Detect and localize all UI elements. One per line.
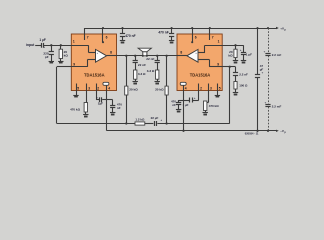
svg-text:3: 3 — [210, 86, 212, 90]
svg-text:020054 - 11: 020054 - 11 — [245, 132, 259, 136]
svg-text:8: 8 — [180, 50, 182, 54]
svg-text:TDA1516A: TDA1516A — [190, 72, 211, 77]
svg-text:5: 5 — [219, 86, 221, 90]
svg-text:+: + — [96, 96, 98, 100]
svg-text:9: 9 — [73, 62, 75, 66]
svg-text:470 kΩ: 470 kΩ — [70, 107, 81, 111]
svg-text:3.3 Ω: 3.3 Ω — [147, 69, 155, 73]
svg-text:+: + — [265, 100, 267, 104]
svg-text:1: 1 — [218, 39, 220, 43]
svg-text:2: 2 — [200, 86, 202, 90]
svg-text:2.2 mF: 2.2 mF — [272, 104, 282, 108]
svg-text:22 nF: 22 nF — [146, 57, 154, 61]
svg-text:–V: –V — [280, 129, 284, 133]
svg-text:kΩ: kΩ — [64, 54, 69, 58]
svg-text:2: 2 — [97, 86, 99, 90]
svg-text:TDA1516A: TDA1516A — [84, 72, 105, 77]
svg-text:7: 7 — [87, 36, 89, 40]
svg-text:22 nF: 22 nF — [138, 63, 146, 67]
svg-text:6: 6 — [195, 36, 197, 40]
svg-text:2.2 mF: 2.2 mF — [272, 53, 282, 57]
svg-text:3.3 Ω: 3.3 Ω — [138, 72, 146, 76]
svg-text:4: 4 — [185, 86, 187, 90]
svg-text:20 kΩ: 20 kΩ — [155, 88, 164, 92]
svg-text:1 µF: 1 µF — [246, 52, 252, 56]
svg-text:+V: +V — [280, 26, 284, 30]
svg-text:20 kΩ: 20 kΩ — [129, 88, 138, 92]
svg-text:kΩ: kΩ — [228, 54, 233, 58]
svg-text:2.2 nF: 2.2 nF — [239, 73, 248, 77]
svg-text:+: + — [262, 70, 264, 74]
svg-text:8: 8 — [110, 50, 112, 54]
svg-text:1: 1 — [73, 39, 75, 43]
svg-text:nF: nF — [117, 106, 121, 110]
svg-text:1µF: 1µF — [98, 101, 103, 105]
svg-text:nF: nF — [172, 103, 176, 107]
svg-text:9: 9 — [217, 62, 219, 66]
svg-text:+: + — [264, 49, 266, 53]
svg-text:+: + — [194, 96, 196, 100]
svg-text:4: 4 — [108, 86, 110, 90]
svg-text:5: 5 — [77, 86, 79, 90]
svg-text:3: 3 — [88, 86, 90, 90]
svg-text:22 µF: 22 µF — [151, 116, 159, 120]
svg-text:+: + — [160, 118, 162, 122]
svg-text:470 nF: 470 nF — [158, 31, 168, 35]
svg-text:pF: pF — [45, 55, 49, 59]
svg-text:470 nF: 470 nF — [125, 34, 135, 38]
svg-text:input: input — [26, 43, 35, 47]
svg-text:6: 6 — [106, 36, 108, 40]
svg-text:+: + — [240, 48, 242, 52]
svg-text:1 µF: 1 µF — [39, 38, 45, 42]
svg-text:7: 7 — [212, 36, 214, 40]
svg-text:100 Ω: 100 Ω — [239, 83, 248, 87]
svg-text:1.2 kΩ: 1.2 kΩ — [135, 118, 145, 122]
svg-text:470 kΩ: 470 kΩ — [209, 104, 220, 108]
